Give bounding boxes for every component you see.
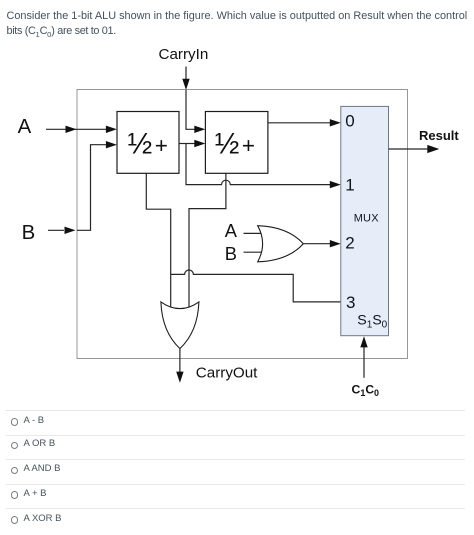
- svg-text:B: B: [225, 243, 237, 264]
- wire B stub into U3: [244, 251, 263, 253]
- arrowhead CarryIn into enclosure: [182, 79, 189, 90]
- or-gate U3 (A OR B): [258, 226, 304, 262]
- arrowhead CarryIn at U2: [194, 126, 205, 133]
- arrowhead Result: [427, 145, 439, 153]
- arrowhead U1 sum at U2: [194, 140, 205, 147]
- wire U1 carry down to OR gate U4: [146, 174, 170, 309]
- wire Result output: [389, 148, 429, 150]
- svg-text:C1C0: C1C0: [352, 383, 380, 399]
- arrowhead MUX input 2: [330, 240, 341, 247]
- svg-text:3: 3: [346, 293, 355, 312]
- arrowhead B at U1: [106, 141, 117, 148]
- arrowhead A at U1: [106, 126, 117, 133]
- wire A input: [46, 128, 107, 130]
- svg-text:Result: Result: [419, 128, 459, 143]
- svg-text:B: B: [22, 222, 36, 244]
- wire U2 carry down to OR gate U4: [189, 174, 226, 309]
- svg-text:A: A: [225, 220, 238, 241]
- wire C1C0 select input: [363, 347, 365, 378]
- half-adder U1: [117, 112, 179, 174]
- wire A stub into U3: [244, 232, 261, 234]
- mux U5: [341, 106, 389, 335]
- enclosure box: [77, 90, 408, 359]
- svg-text:1: 1: [345, 176, 354, 195]
- svg-text:2: 2: [345, 234, 354, 253]
- arrowhead B at enclosure: [65, 227, 76, 234]
- wire U3 output to MUX input 2: [303, 243, 330, 245]
- svg-text:CarryIn: CarryIn: [159, 46, 209, 63]
- or-gate U4 (carry combine, points down): [161, 302, 199, 349]
- svg-text:0: 0: [345, 111, 354, 130]
- wire U2 sum to MUX input 0: [268, 122, 330, 124]
- wire CarryOut: [179, 349, 181, 372]
- arrowhead A at enclosure: [66, 126, 77, 133]
- half-adder U2: [205, 112, 268, 174]
- svg-text:½+: ½+: [215, 128, 255, 161]
- svg-text:½+: ½+: [128, 128, 168, 161]
- wire U1 sum to U2: [179, 143, 195, 145]
- wire CarryIn vertical: [185, 67, 187, 80]
- svg-text:CarryOut: CarryOut: [196, 365, 258, 382]
- svg-text:MUX: MUX: [354, 212, 380, 224]
- svg-text:A: A: [18, 116, 32, 138]
- arrowhead MUX input 1: [330, 181, 341, 188]
- arrowhead CarryOut: [176, 372, 183, 383]
- wire B input: [48, 145, 107, 231]
- wire U1 sum branch to MUX input 1 (hop over U2 carry wire): [186, 144, 330, 185]
- wire U1 carry branch to MUX input 3 (hop over U2 carry wire): [171, 270, 341, 302]
- wire CarryIn to half-adder U2 pin: [186, 90, 195, 129]
- arrowhead MUX input 0: [330, 119, 341, 126]
- arrowhead C1C0 at mux: [360, 336, 367, 347]
